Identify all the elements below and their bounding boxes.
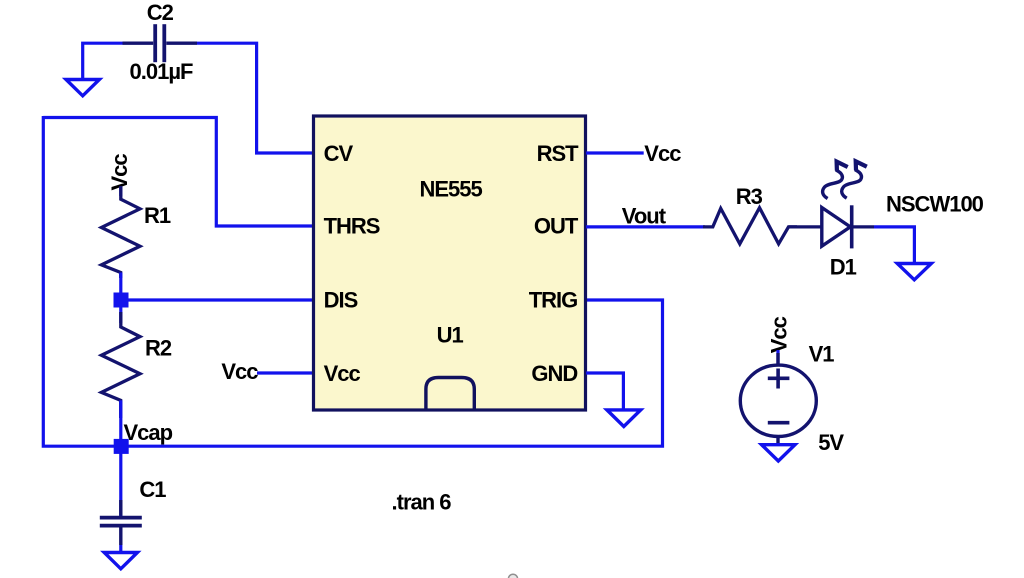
svg-text:U1: U1 [437,322,464,347]
wire stub Vcc to R1 [119,187,122,196]
svg-text:.tran 6: .tran 6 [392,490,452,515]
capacitor C1 [100,500,142,545]
wire DIS from junction to chip [121,298,314,301]
D1 light arrow right [842,161,867,198]
wire C1 bottom to ground [119,545,122,553]
svg-text:THRS: THRS [324,214,380,239]
svg-text:R2: R2 [145,335,172,360]
junction node Vcap [114,439,129,454]
svg-text:DIS: DIS [324,288,358,313]
svg-text:Vout: Vout [622,204,667,229]
ground (GND pin) [607,410,641,427]
wire R3 to LED [789,225,822,228]
svg-text:D1: D1 [830,254,857,279]
ground (below C1) [104,553,137,569]
svg-text:C2: C2 [147,0,174,25]
svg-text:CV: CV [324,141,354,166]
svg-text:OUT: OUT [534,214,579,239]
resistor R1 [101,186,140,278]
wire LED to ground [874,227,914,264]
wire R2 bottom to Vcap junction [119,400,122,446]
wire C2 right to CV pin [197,43,314,153]
svg-text:NSCW100: NSCW100 [886,191,984,216]
svg-text:0.01µF: 0.01µF [130,59,193,84]
chip bottom notch [426,378,474,409]
svg-text:R3: R3 [736,184,763,209]
svg-text:TRIG: TRIG [529,288,578,313]
ground (below V1) [762,445,795,461]
diode D1 LED [822,205,874,248]
wire left loop: top rail to THRS [43,118,313,227]
svg-text:C1: C1 [139,477,166,502]
ground (top-left) [66,80,99,96]
wire junction to R2 top [119,300,122,323]
svg-text:R1: R1 [144,203,171,228]
wire C2 left to ground stub [83,43,123,79]
voltage source V1 [740,353,816,445]
op-amp U1 NE555 chip body [314,116,586,410]
svg-text:V1: V1 [809,341,835,366]
wire Vcc net label to chip Vcc pin [257,371,314,374]
wire RST to Vcc label [586,151,644,154]
svg-text:5V: 5V [818,430,844,455]
svg-text:Vcc: Vcc [644,141,681,166]
junction node at R1/R2/DIS [114,293,129,308]
wire OUT to R3 [586,225,705,228]
wire GND pin to ground [586,373,623,410]
D1 light arrow left [823,162,848,199]
wire left rail down, bottom rail, up to TRIG [43,116,662,446]
svg-text:Vcc: Vcc [107,154,132,191]
svg-text:Vcap: Vcap [124,420,173,445]
resistor R2 [101,312,140,418]
wire Vcc label to V1 top [776,350,779,364]
resistor R3 [703,208,797,244]
ground (after LED) [897,264,931,280]
svg-text:Vcc: Vcc [221,359,258,384]
capacitor C2 [123,24,198,62]
svg-text:NE555: NE555 [419,177,482,202]
svg-text:GND: GND [531,361,577,386]
wire Vcap junction down to C1 [119,446,122,517]
svg-text:RST: RST [537,141,580,166]
wire R1 bottom to junction [119,273,122,301]
svg-text:Vcc: Vcc [324,361,361,386]
svg-text:Vcc: Vcc [766,316,791,353]
